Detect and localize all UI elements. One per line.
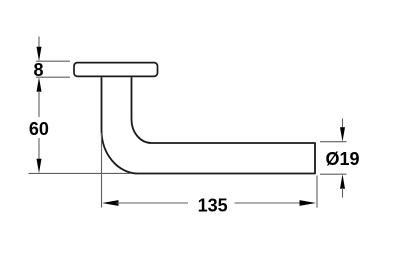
- dim d19: bottom extension line: [320, 173, 347, 175]
- lever (handle body): [102, 77, 316, 173]
- dim 135: left extension line: [101, 133, 103, 208]
- rose (escutcheon): [74, 63, 158, 77]
- dim d19: top extension line: [320, 141, 347, 143]
- svg-text:Ø19: Ø19: [325, 149, 359, 169]
- dim 8: leader line above: [38, 37, 40, 48]
- dim 60: bottom extension line: [29, 172, 131, 174]
- dim d19: leader line above: [342, 119, 344, 129]
- dim 135: arrow left: [102, 200, 119, 206]
- dim d19: leader line below: [342, 188, 344, 198]
- dim 60: arrow down: [37, 159, 42, 174]
- dim 60: dimension line upper segment: [38, 91, 40, 117]
- svg-text:60: 60: [29, 119, 49, 139]
- dim 8: top extension line: [36, 60, 70, 62]
- dim 135: dimension line right segment: [235, 202, 303, 204]
- dim 8: bottom extension line: [36, 76, 70, 78]
- svg-text:135: 135: [198, 195, 228, 215]
- dim 60: arrow up: [37, 77, 42, 92]
- dim 135: arrow right: [300, 200, 317, 206]
- dim 8: arrow down: [37, 47, 42, 62]
- dim 60: dimension line lower segment: [38, 138, 40, 160]
- dim d19: arrow up: [340, 174, 345, 189]
- dim d19: arrow down: [340, 127, 345, 142]
- dim 135: dimension line left segment: [116, 202, 188, 204]
- dim 135: right extension line: [316, 176, 318, 208]
